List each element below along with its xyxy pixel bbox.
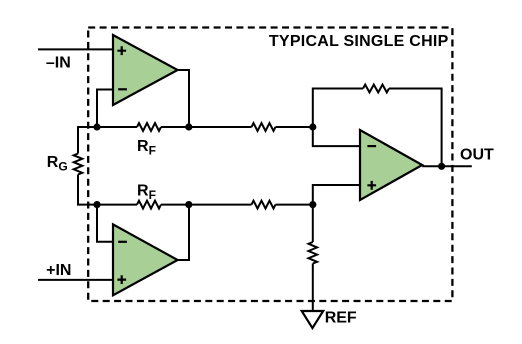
svg-text:REF: REF [325, 310, 357, 327]
svg-text:+IN: +IN [46, 262, 71, 279]
svg-text:TYPICAL SINGLE CHIP: TYPICAL SINGLE CHIP [269, 33, 449, 50]
svg-text:OUT: OUT [460, 147, 494, 164]
svg-text:–IN: –IN [46, 54, 71, 71]
